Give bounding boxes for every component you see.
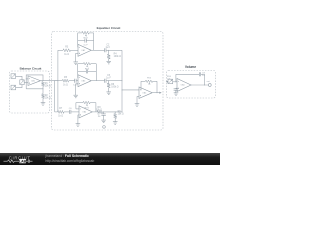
node OA5 feedback junction xyxy=(140,88,143,91)
logo capacitor symbol xyxy=(27,160,29,163)
wire R4 to ground xyxy=(108,59,110,61)
wire shunt down band-2 xyxy=(108,81,110,83)
wire OA2 + input stub xyxy=(76,52,78,54)
wire feedback loop over OA1 xyxy=(26,75,43,81)
watermark bar xyxy=(0,153,220,165)
wire OA3 feedback right vertical xyxy=(95,64,97,81)
logo resistor zigzag xyxy=(8,160,15,163)
node band-3 shunt xyxy=(114,110,117,113)
svg-text:http://circuitlab.com/c/fbg6zb: http://circuitlab.com/c/fbg6zbcscab xyxy=(46,159,95,163)
node bus band-3 junction xyxy=(121,110,124,113)
net flag at volume input xyxy=(166,81,168,83)
capacitor C9 (OA6 feedback) xyxy=(198,72,200,76)
wire OA4 + input to ground xyxy=(77,115,79,124)
resistor R6 (band-2 shunt) xyxy=(107,83,110,88)
capacitor C1 (band-1 feedback) xyxy=(84,39,86,43)
wire bus A to band-1 input xyxy=(58,49,63,51)
wire C2 to summing bus xyxy=(106,49,122,51)
potentiometer RV6 (volume) xyxy=(168,79,173,84)
ground (OA6 input) xyxy=(174,92,179,94)
wire OA6 feedback left vertical xyxy=(175,74,177,82)
wire R7 to C6 xyxy=(64,111,70,113)
wire OA5 feedback top rung xyxy=(141,80,145,82)
logo trace tail xyxy=(30,160,33,162)
wire OA3 + input to ground xyxy=(75,84,77,96)
potentiometer RV2 (band-1 gain) xyxy=(82,32,89,35)
wire stub to op-amp - input xyxy=(26,78,28,80)
wire OA6 + input down xyxy=(175,87,177,90)
section box: Equalizer Circuit xyxy=(52,32,164,131)
wire pot wiper to op-amp + input xyxy=(24,82,28,84)
potentiometer RV1 (balance) xyxy=(20,80,24,85)
wire OA4 feedback top rung xyxy=(76,102,83,104)
wire divider tap to feedback xyxy=(26,88,43,90)
ground (band-1 shunt) xyxy=(106,60,111,62)
wire shunt down xyxy=(108,50,110,54)
capacitor C2 (band-1 output) xyxy=(104,48,106,52)
wire OA4 + input stub xyxy=(78,114,79,116)
wire OA4 output xyxy=(92,111,97,113)
source V1 (left input) xyxy=(11,74,16,79)
potentiometer RV4 (band-3 gain) xyxy=(83,101,90,104)
output port circle xyxy=(208,84,211,87)
capacitor C4 (band-2 feedback) xyxy=(85,69,87,73)
wire R9 to ground xyxy=(114,118,116,121)
wire OA5 output xyxy=(152,92,159,94)
node divider tap xyxy=(42,87,45,90)
wire OA4 feedback right vertical xyxy=(95,103,97,112)
resistor R7 (band-3 input) xyxy=(58,110,65,113)
wire OA5 feedback right vertical xyxy=(156,81,158,92)
wire R2 to ground xyxy=(42,98,44,102)
node band-3 branch xyxy=(102,110,105,113)
logo LAB box xyxy=(19,159,26,163)
resistor R5 (band-2 input) xyxy=(62,79,69,82)
node OA6 feedback junction xyxy=(174,80,177,83)
wire OA2 feedback top rung xyxy=(78,32,82,34)
resistor R1 (divider top) xyxy=(42,82,45,87)
logo trace wire left xyxy=(4,160,8,162)
resistor R3 (band-1 input) xyxy=(63,49,71,52)
node OA6 output xyxy=(203,84,206,87)
wire OA3 + input stub xyxy=(76,83,78,85)
wire V1 to pot top xyxy=(16,76,22,80)
node OA5 output xyxy=(156,91,159,94)
wire summing bus to OA5 input xyxy=(122,89,139,91)
node band-1 shunt xyxy=(107,49,110,52)
wire OA5 + input to ground xyxy=(136,96,138,103)
ground (OA4) xyxy=(76,123,81,125)
ground (OA2) xyxy=(73,61,78,63)
resistor R4 (band-1 shunt) xyxy=(107,54,110,59)
ground (band-3 shunt) xyxy=(113,121,118,123)
svg-text:LAB: LAB xyxy=(19,159,27,163)
node bus B top xyxy=(53,79,56,82)
wire OA6 feedback top rung xyxy=(176,73,199,75)
wire V2 to pot bottom xyxy=(16,85,22,88)
ground (band-2 shunt) xyxy=(106,91,111,93)
wire input bus vertical A xyxy=(57,50,59,112)
wire C5 to summing bus xyxy=(106,80,122,82)
wire OA3 feedback middle rung xyxy=(78,70,87,72)
node at OA1 inverting input xyxy=(25,77,28,80)
wire pot wiper to OA6 inverting input xyxy=(173,81,177,83)
op-amp OA2 (band-1) xyxy=(78,44,91,56)
ground (OA3) xyxy=(73,94,78,96)
resistor R2 (divider bottom) xyxy=(42,94,45,99)
svg-text:jhanneland : Full Schematic: jhanneland : Full Schematic xyxy=(45,154,89,158)
node band-2 shunt xyxy=(107,79,110,82)
node bus to OA5 xyxy=(121,88,124,91)
wire OA2 + input to ground xyxy=(75,53,77,62)
op-amp OA1 (balance buffer) xyxy=(28,76,41,86)
op-amp OA6 (volume) xyxy=(177,79,191,92)
capacitor C7 (band-3 branch) xyxy=(101,113,105,115)
section box: Volume xyxy=(167,71,216,99)
resistor R8 (band-3 output) xyxy=(97,110,102,113)
wire OA1 output to equalizer input bus xyxy=(41,80,58,82)
wire R6 to ground xyxy=(108,88,110,92)
wire bus to R5 xyxy=(55,80,63,82)
logo trace wire after LAB xyxy=(26,160,28,162)
wire C7 to ground xyxy=(103,115,105,120)
wire shunt down band-3 xyxy=(114,112,116,114)
op-amp OA3 (band-2) xyxy=(78,75,91,87)
wire OA2 feedback middle rung xyxy=(78,40,85,42)
wire R5 to C3 xyxy=(69,80,75,82)
capacitor C3 (band-2 input) xyxy=(74,79,76,83)
wire OA6 feedback right vertical xyxy=(204,74,206,85)
section box: Balance Circuit xyxy=(10,71,50,113)
op-amp OA5 (summing) xyxy=(139,87,152,98)
capacitor C6 (band-3 input) xyxy=(69,110,71,114)
wire OA3 output xyxy=(91,80,104,82)
wire divider middle xyxy=(42,86,44,94)
wire input bus vertical B xyxy=(54,81,56,112)
wire OA2 output xyxy=(91,49,104,51)
wire summing bus vertical xyxy=(121,50,123,112)
capacitor C8 (OA6 + input) xyxy=(174,88,178,90)
source V2 (right input) xyxy=(11,85,16,90)
capacitor C5 (band-2 output) xyxy=(104,79,106,83)
potentiometer RV5 (master gain) xyxy=(145,80,152,83)
wire feedback vertical xyxy=(25,79,27,89)
wire C3 to OA3 xyxy=(76,80,78,82)
wire R8 to bus xyxy=(102,111,122,113)
ground (band-3 branch) xyxy=(101,119,106,121)
node bus band-2 junction xyxy=(121,79,124,82)
node OA1 output xyxy=(42,79,45,82)
op-amp OA4 (band-3) xyxy=(79,106,92,118)
wire OA2 feedback left vertical xyxy=(77,33,79,47)
wire OA2 feedback right vertical xyxy=(93,33,95,50)
resistor R9 (band-3 shunt) xyxy=(114,114,117,119)
wire OA3 feedback top rung xyxy=(78,63,84,65)
wire R3 to OA2 xyxy=(71,49,79,51)
node circle on bottom edge xyxy=(103,126,106,129)
wire OA5 + input stub xyxy=(137,95,139,97)
wire OA6 output xyxy=(191,84,208,86)
ground (balance divider) xyxy=(41,102,46,104)
wire OA3 feedback left vertical xyxy=(77,64,79,78)
node bus A xyxy=(56,79,59,82)
net flag at OA5 output xyxy=(159,92,161,94)
wire OA6 + input stub xyxy=(176,87,177,89)
wire C6 to OA4 xyxy=(71,111,79,113)
wire OA4 feedback stub xyxy=(76,108,79,110)
wire bus to R7 xyxy=(55,111,58,113)
wire branch down xyxy=(103,112,105,114)
logo trace wire mid xyxy=(15,160,20,162)
wire OA5 feedback left vertical xyxy=(140,81,142,90)
ground (OA5) xyxy=(135,103,140,105)
potentiometer RV3 (band-2 gain) xyxy=(83,62,90,65)
wire OA4 feedback left vertical xyxy=(75,103,77,109)
wire C8 to ground xyxy=(175,90,177,93)
